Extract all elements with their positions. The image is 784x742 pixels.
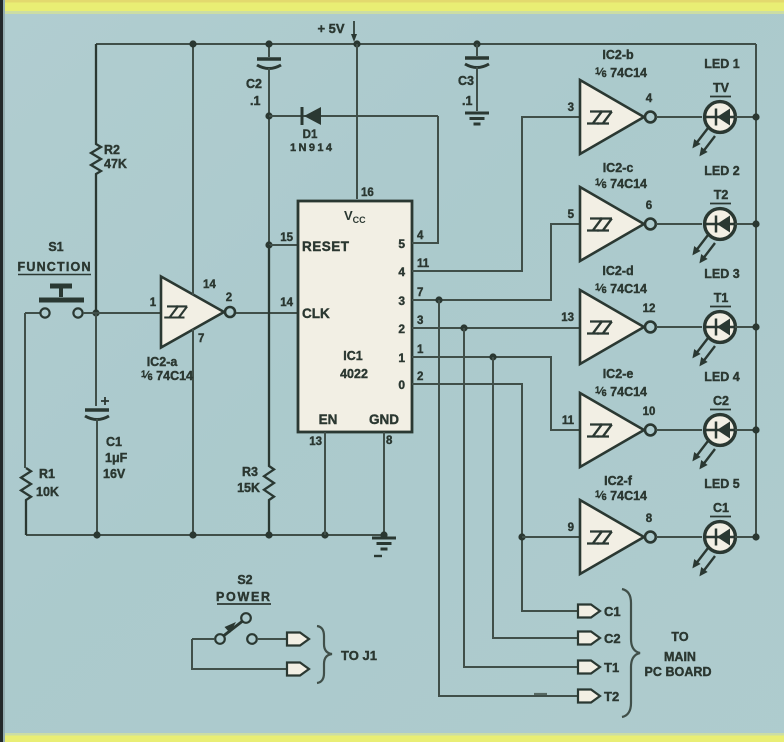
wire LED 2 to rail xyxy=(735,223,756,225)
wire output4 pin11 to IC2-b xyxy=(412,117,580,271)
ground symbol C3 xyxy=(465,113,489,124)
svg-text:3: 3 xyxy=(568,102,574,114)
wire output5 pin4 up to D1 xyxy=(412,116,438,243)
svg-text:12: 12 xyxy=(643,303,656,315)
svg-text:MAIN: MAIN xyxy=(664,650,696,664)
svg-text:1: 1 xyxy=(417,344,424,356)
svg-text:.1: .1 xyxy=(462,94,472,108)
artifact dash near T2 wire xyxy=(534,693,547,695)
inverter IC2-b xyxy=(580,80,644,154)
wire bottom ground rail xyxy=(26,534,384,536)
svg-text:RESET: RESET xyxy=(302,239,350,254)
svg-text:EN: EN xyxy=(319,412,338,427)
svg-text:LED 3: LED 3 xyxy=(704,267,739,281)
svg-text:C2: C2 xyxy=(246,77,262,91)
svg-text:5: 5 xyxy=(568,209,575,221)
+5V supply arrow xyxy=(353,21,355,35)
capacitor C1 electrolytic xyxy=(85,408,109,412)
LED LED 2 T2 xyxy=(705,209,736,240)
S2 lever arm xyxy=(224,622,242,636)
capacitor C2 xyxy=(268,44,270,57)
connector T2 to main board xyxy=(578,690,600,703)
inverter IC2-d xyxy=(580,290,644,364)
svg-text:LED 1: LED 1 xyxy=(704,57,739,71)
wire output3 pin7 to IC2-c and T2 connector xyxy=(412,224,580,300)
svg-text:TO: TO xyxy=(671,630,688,644)
diode D1 1N914 xyxy=(301,107,304,125)
connector to J1 bottom xyxy=(287,663,309,676)
svg-text:8: 8 xyxy=(386,435,393,447)
svg-text:2: 2 xyxy=(398,322,405,336)
svg-text:15: 15 xyxy=(280,232,293,244)
svg-text:T1: T1 xyxy=(714,291,729,305)
node rail junction LED 1 xyxy=(752,113,759,120)
svg-text:14: 14 xyxy=(280,297,293,309)
brace TO J1 xyxy=(317,626,332,683)
svg-text:10K: 10K xyxy=(36,485,59,499)
svg-text:LED 4: LED 4 xyxy=(704,370,739,384)
wire RESET stub xyxy=(269,244,298,246)
svg-text:1⁄6 74C14: 1⁄6 74C14 xyxy=(595,489,647,503)
svg-text:C3: C3 xyxy=(458,74,474,88)
LED LED 4 C2 xyxy=(705,415,736,446)
svg-text:C1: C1 xyxy=(713,501,729,515)
svg-text:1μF: 1μF xyxy=(105,451,128,465)
svg-text:14: 14 xyxy=(203,279,216,291)
svg-text:LED 2: LED 2 xyxy=(704,164,739,178)
wire output0 pin2 to IC2-f and C1 connector xyxy=(412,384,578,611)
svg-text:9: 9 xyxy=(568,522,574,534)
node rail junction LED 4 xyxy=(752,426,759,433)
svg-text:T1: T1 xyxy=(604,660,619,675)
svg-text:3: 3 xyxy=(417,315,423,327)
svg-text:11: 11 xyxy=(562,415,575,427)
svg-text:7: 7 xyxy=(198,333,204,345)
node bottom rail junctions xyxy=(189,531,196,538)
svg-text:TO J1: TO J1 xyxy=(341,648,377,663)
svg-text:S2: S2 xyxy=(237,573,252,587)
svg-text:13: 13 xyxy=(309,436,322,448)
svg-text:7: 7 xyxy=(417,287,423,299)
svg-text:C1: C1 xyxy=(106,435,122,449)
node R2/S1/C1 junction xyxy=(92,309,99,316)
wire S2 to J1 connector 1 xyxy=(257,638,287,640)
IC U1 IC1 4022 counter body xyxy=(298,201,412,432)
inverter IC2-e xyxy=(580,393,644,467)
svg-text:POWER: POWER xyxy=(216,590,270,604)
ground symbol main xyxy=(372,538,396,549)
svg-text:4: 4 xyxy=(646,93,653,105)
node C2/D1 junction xyxy=(265,112,272,119)
svg-text:R2: R2 xyxy=(104,143,120,157)
wire GND pin down to rail xyxy=(383,432,385,535)
node RESET junction xyxy=(265,241,272,248)
wire lower leg to J1 connector 2 xyxy=(192,639,287,669)
svg-text:1: 1 xyxy=(150,297,157,309)
wire IC2-e output to LED 4 xyxy=(656,429,702,431)
wire LED 4 to rail xyxy=(735,429,756,431)
svg-text:4: 4 xyxy=(417,230,424,242)
capacitor C3 xyxy=(473,40,480,47)
svg-text:T2: T2 xyxy=(714,188,729,202)
svg-text:11: 11 xyxy=(417,258,430,270)
svg-text:47K: 47K xyxy=(104,157,127,171)
wire LED 3 to rail xyxy=(735,326,756,328)
svg-text:16V: 16V xyxy=(103,467,126,481)
svg-text:1⁄6 74C14: 1⁄6 74C14 xyxy=(595,385,647,399)
svg-text:13: 13 xyxy=(561,312,574,324)
wire IC2-b output to LED 1 xyxy=(656,116,702,118)
node rail junction LED 3 xyxy=(752,323,759,330)
svg-text:GND: GND xyxy=(369,412,399,427)
label pin 14 power xyxy=(192,44,194,295)
wire IC2-f output to LED 5 xyxy=(656,536,702,538)
svg-text:1⁄6 74C14: 1⁄6 74C14 xyxy=(141,369,193,383)
node rail junction LED 2 xyxy=(752,220,759,227)
node rail junction LED 5 xyxy=(752,533,759,540)
wire output2 pin3 to IC2-d and T1 connector xyxy=(412,327,580,329)
node C2 top rail junction xyxy=(265,40,272,47)
wire +5V top rail xyxy=(96,43,756,45)
node rail/pin14 junction xyxy=(189,40,196,47)
svg-text:IC2-b: IC2-b xyxy=(602,48,634,62)
svg-text:C2: C2 xyxy=(713,394,729,408)
LED LED 3 T1 xyxy=(705,312,736,343)
resistor R2 xyxy=(91,44,101,313)
svg-text:R3: R3 xyxy=(242,465,258,479)
wire junction down to C1 xyxy=(95,313,97,406)
brace TO MAIN PC BOARD xyxy=(622,589,640,717)
connector T1 to main board xyxy=(578,661,600,674)
wire IC2-c output to LED 2 xyxy=(656,223,702,225)
svg-text:CLK: CLK xyxy=(302,306,330,321)
wire IC2-d output to LED 3 xyxy=(656,326,702,328)
connector C2 to main board xyxy=(578,632,600,645)
svg-text:LED 5: LED 5 xyxy=(704,477,739,491)
wire LED 5 to rail xyxy=(735,536,756,538)
svg-text:2: 2 xyxy=(417,371,423,383)
left dark scan edge xyxy=(0,0,3,742)
svg-text:15K: 15K xyxy=(237,481,260,495)
LED LED 1 TV xyxy=(705,102,736,133)
svg-text:4022: 4022 xyxy=(340,367,368,381)
LED LED 5 C1 xyxy=(705,522,736,553)
connector C1 to main board xyxy=(578,605,600,618)
wire IC2-a output to CLK xyxy=(236,312,298,314)
resistor R3 xyxy=(264,245,274,535)
svg-text:T2: T2 xyxy=(604,689,619,704)
svg-text:+ 5V: + 5V xyxy=(317,21,344,36)
svg-text:4: 4 xyxy=(398,265,405,279)
svg-text:2: 2 xyxy=(226,292,232,304)
wire S1 left leg down to R1 xyxy=(24,313,26,468)
svg-text:IC2-a: IC2-a xyxy=(147,355,179,369)
svg-text:6: 6 xyxy=(646,200,652,212)
svg-text:1: 1 xyxy=(398,351,405,365)
switch S1 pushbutton xyxy=(25,312,40,314)
inverter IC2-f xyxy=(580,500,644,574)
node +5V junction xyxy=(353,40,360,47)
svg-text:PC BOARD: PC BOARD xyxy=(645,665,712,679)
svg-text:IC2-d: IC2-d xyxy=(602,264,633,278)
resistor R1 xyxy=(21,468,31,535)
top yellow border strip xyxy=(0,0,784,11)
svg-text:.1: .1 xyxy=(250,94,260,108)
inverter IC2-a xyxy=(96,312,160,314)
svg-text:3: 3 xyxy=(398,294,405,308)
wire D1 row xyxy=(269,115,438,117)
bottom yellow border strip xyxy=(0,735,784,742)
wire EN pin down to rail xyxy=(324,432,326,535)
svg-text:C2: C2 xyxy=(604,631,621,646)
svg-text:IC2-e: IC2-e xyxy=(603,367,634,381)
svg-text:8: 8 xyxy=(646,513,653,525)
svg-text:IC2-c: IC2-c xyxy=(603,161,634,175)
svg-text:10: 10 xyxy=(643,406,656,418)
wire VCC pin16 to +5V rail xyxy=(356,44,358,199)
svg-text:C1: C1 xyxy=(604,604,621,619)
svg-text:1⁄6 74C14: 1⁄6 74C14 xyxy=(595,66,647,80)
svg-text:1⁄6 74C14: 1⁄6 74C14 xyxy=(595,177,647,191)
svg-text:TV: TV xyxy=(713,81,730,95)
label pin 7 ground leg xyxy=(192,329,194,535)
connector to J1 top xyxy=(287,633,309,646)
svg-text:5: 5 xyxy=(398,237,405,251)
svg-text:FUNCTION: FUNCTION xyxy=(18,260,91,274)
svg-text:1⁄6 74C14: 1⁄6 74C14 xyxy=(595,282,647,296)
svg-text:IC1: IC1 xyxy=(343,349,363,363)
svg-text:16: 16 xyxy=(361,187,374,199)
svg-text:0: 0 xyxy=(398,378,405,392)
svg-text:S1: S1 xyxy=(48,240,63,254)
wire LED 1 to rail xyxy=(735,116,756,118)
wire output1 pin1 to IC2-e and C2 connector xyxy=(412,357,580,430)
svg-text:D1: D1 xyxy=(303,129,318,141)
svg-text:IC2-f: IC2-f xyxy=(604,474,633,488)
inverter IC2-c xyxy=(580,187,644,261)
wire right-side LED common rail xyxy=(755,44,757,537)
svg-text:R1: R1 xyxy=(39,467,55,481)
